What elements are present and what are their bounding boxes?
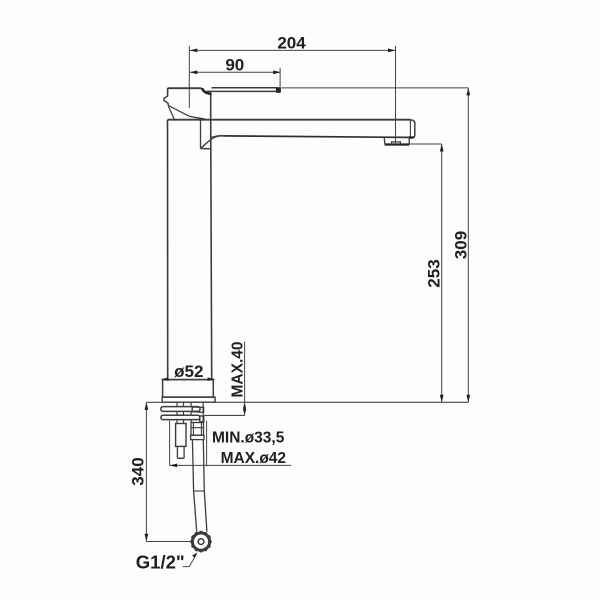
dim 253 line	[441, 144, 443, 402]
svg-text:90: 90	[225, 56, 244, 75]
dim 309 top arrow	[466, 88, 470, 96]
dim 340 top arrow	[145, 402, 149, 410]
stud rod lower	[177, 446, 184, 458]
G1/2 leader arrow	[192, 552, 197, 557]
ext line outlet axis	[395, 46, 397, 144]
dim phi52 line	[162, 378, 215, 380]
spout top edge	[168, 119, 411, 121]
aerator insert notch	[392, 142, 401, 144]
deck bottom line	[204, 414, 245, 416]
dim MAX40 line	[244, 342, 246, 416]
dim 204 right arrow	[388, 49, 396, 53]
hose pipe upper	[191, 402, 203, 422]
dim 309 bottom arrow	[466, 395, 470, 403]
body right edge	[211, 120, 212, 380]
lever pivot wedge	[201, 88, 211, 94]
dim 90 line	[190, 71, 281, 73]
svg-text:MIN.ø33,5: MIN.ø33,5	[212, 429, 285, 446]
aerator right edge	[408, 137, 410, 144]
hose right edge	[203, 440, 207, 532]
hole left ext line	[169, 421, 171, 466]
stud nut block	[176, 424, 186, 447]
washer far piece	[192, 407, 203, 413]
svg-text:253: 253	[425, 259, 444, 287]
dim phi52 left arrow	[162, 377, 169, 381]
head left tab	[164, 96, 168, 106]
head right edge	[210, 95, 212, 120]
handle lever end cap	[276, 88, 281, 93]
G1/2 nut inner circle	[198, 539, 204, 545]
dim 90 left arrow	[190, 70, 198, 74]
dim MAX40 lower arrow	[243, 409, 246, 415]
svg-text:G1/2": G1/2"	[136, 552, 185, 573]
spout boss left edge	[200, 120, 202, 149]
nut far piece	[200, 416, 204, 422]
dim MAX40 upper arrow	[243, 403, 246, 409]
ext line nut center	[146, 541, 191, 543]
threaded rod upper	[177, 402, 184, 423]
spout underside line	[223, 136, 409, 138]
head chamfer diagonal	[169, 106, 206, 120]
svg-text:309: 309	[451, 231, 470, 259]
dim 309 line	[467, 88, 469, 402]
dim 253 top arrow	[440, 144, 444, 152]
spout boss fillet	[201, 136, 224, 149]
hose joint line	[194, 490, 205, 492]
svg-text:340: 340	[129, 457, 148, 485]
dim phi52 right arrow	[208, 377, 215, 381]
handle lever bar	[207, 88, 278, 92]
hole right ext line	[206, 421, 208, 467]
ext line lever end	[279, 68, 281, 92]
base plate	[162, 397, 215, 402]
hose ferrule	[191, 435, 204, 439]
aerator bottom thick	[385, 143, 410, 145]
dim 253 bottom arrow	[440, 395, 444, 403]
faucet head left edge	[167, 88, 169, 96]
base flange	[163, 380, 214, 397]
spout end cap outer	[409, 120, 415, 139]
ext line faucet top	[281, 87, 468, 89]
spout end cap bottom thick	[409, 136, 414, 138]
svg-text:MAX.40: MAX.40	[229, 342, 246, 398]
dim 204 left arrow	[190, 49, 198, 53]
body left edge	[167, 120, 169, 380]
hose connector inner lines	[191, 423, 204, 436]
G1/2 leader line	[183, 555, 197, 567]
G1/2 nut outer circle	[193, 534, 209, 550]
head-to-body diagonal	[168, 106, 174, 119]
hose left edge	[192, 440, 196, 532]
dim 340 line	[145, 402, 147, 541]
svg-text:MAX.ø42: MAX.ø42	[221, 450, 286, 467]
ext line pivot axis	[188, 46, 190, 108]
spout end cap inner line	[409, 120, 411, 137]
G1/2 nut hex rotated	[192, 531, 210, 551]
faucet head top edge	[168, 87, 202, 89]
spout boss bottom	[201, 148, 212, 150]
aerator left edge	[383, 137, 386, 144]
mounting nut bar	[161, 415, 200, 419]
hose connector barrel	[191, 423, 204, 436]
dim 90 right arrow	[273, 70, 281, 74]
horseshoe washer bar	[161, 407, 200, 412]
hole dim left arrow	[170, 464, 178, 468]
svg-text:204: 204	[277, 34, 306, 53]
dim 204 line	[190, 49, 396, 51]
counter top line	[146, 401, 468, 403]
svg-text:ø52: ø52	[174, 362, 203, 381]
hole dim line	[170, 464, 291, 466]
dim 340 bottom arrow	[145, 534, 149, 542]
spout boss upper fillet	[212, 135, 223, 137]
ext line aerator	[409, 143, 441, 145]
G1/2 nut hex	[191, 533, 211, 551]
